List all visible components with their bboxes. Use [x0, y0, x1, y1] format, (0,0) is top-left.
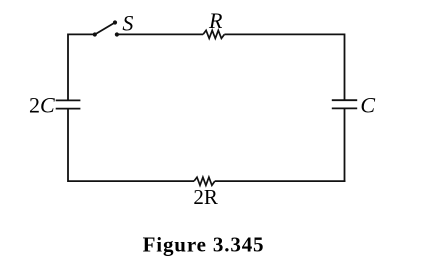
capacitor C (two plates) — [332, 100, 357, 108]
label C (capacitor value) — [360, 92, 375, 117]
resistor 2R (zigzag) — [194, 177, 215, 185]
resistor R (zigzag) — [203, 30, 224, 38]
wire: top-right segment from resistor R to top-right corner — [224, 33, 344, 35]
label 2C (capacitor value) — [29, 92, 55, 117]
wire: bottom-right segment from corner to resistor 2R — [215, 180, 346, 182]
wire: top segment from switch fixed contact to resistor R — [117, 33, 203, 35]
wire: right segment from capacitor C down to bottom-right corner — [344, 108, 346, 182]
wire: bottom-left segment from resistor 2R to bottom-left corner — [68, 180, 194, 182]
capacitor 2C (two plates) — [56, 100, 81, 108]
label 2R (resistor value) — [193, 185, 218, 209]
switch S pivot junction dot — [93, 32, 97, 36]
switch S fixed contact dot — [115, 32, 119, 36]
svg-text:2C: 2C — [29, 92, 55, 117]
wire: left segment from capacitor 2C up to top-left corner — [67, 34, 69, 101]
caption: Figure 3.345 — [143, 233, 265, 257]
wire: top-left segment from left corner to switch pivot — [68, 33, 95, 35]
svg-text:R: R — [208, 8, 223, 33]
svg-text:C: C — [360, 92, 375, 117]
wire: left segment from bottom-left corner up to capacitor 2C — [67, 109, 69, 182]
switch S lever tip dot — [113, 20, 117, 24]
svg-text:2R: 2R — [193, 185, 218, 209]
label S (switch) — [122, 10, 133, 35]
wire: right segment from top-right corner down to capacitor C — [344, 34, 346, 101]
switch S lever arm (open) — [95, 23, 115, 35]
svg-text:S: S — [122, 10, 133, 35]
label R (resistor value) — [208, 8, 223, 33]
svg-text:Figure 3.345: Figure 3.345 — [143, 233, 265, 257]
